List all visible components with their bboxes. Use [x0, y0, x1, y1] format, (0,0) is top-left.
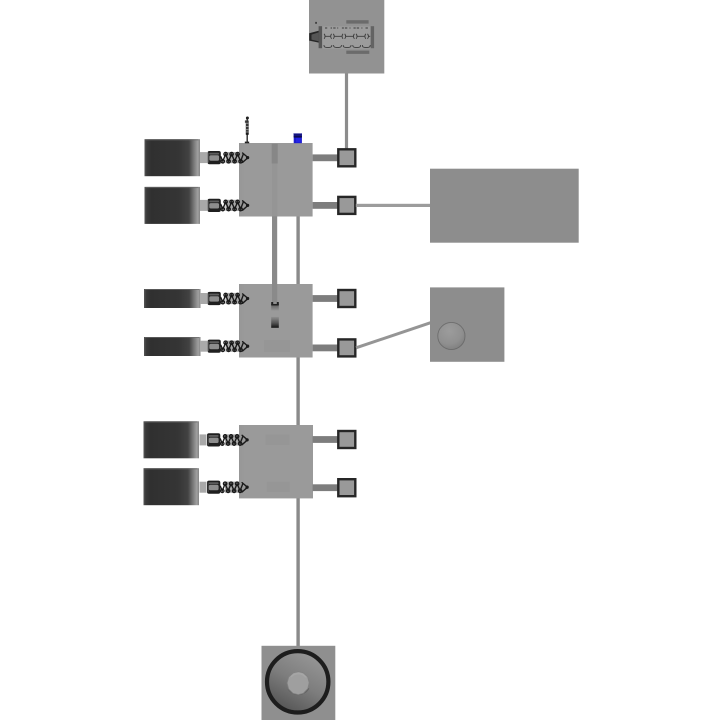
source box M1 top-left (dark) — [145, 139, 201, 176]
wire: M1 port B to right box — [356, 204, 431, 207]
source box M2 bottom-left (dark thin) — [144, 337, 201, 356]
patch cable M1 input B — [200, 199, 249, 212]
speaker dome highlight — [291, 674, 306, 678]
faint panel label M3 top — [266, 434, 290, 445]
keyboard source box — [309, 0, 384, 74]
wire: M2 port B to knob box (diagonal) — [356, 323, 431, 348]
keyboard icon: bottom plate — [346, 51, 369, 54]
slider component inside M2 — [271, 302, 279, 328]
keyboard icon: left bar — [319, 26, 322, 48]
patch cable M3 input B — [200, 481, 249, 494]
wire: M1 internal (top segment, visible) — [272, 144, 278, 164]
port M1 out B (right bottom) — [313, 197, 356, 214]
faint panel label M2 — [264, 340, 290, 352]
faint panel label M3 bottom — [267, 482, 290, 492]
wire: M1 internal (faint segment) — [272, 164, 277, 217]
module box M2 (filter) — [239, 284, 313, 358]
source box M1 bottom-left (dark) — [145, 187, 201, 224]
patch cable M2 input A — [200, 292, 249, 305]
knob sphere — [438, 322, 465, 349]
keyboard icon: top dash row — [325, 27, 368, 29]
wire: M1 to M2 control cable — [272, 216, 277, 284]
source box M3 bottom-left (dark) — [144, 468, 200, 505]
right display box — [430, 169, 579, 243]
patch cable M3 input A — [200, 433, 249, 446]
knob box — [430, 287, 504, 361]
wire: module M1 bottom to speaker (passes behind M2, M3) — [296, 216, 299, 646]
port M2 out B (right bottom) — [313, 339, 356, 356]
patch cable M2 input B — [200, 340, 249, 353]
antenna on M1 — [245, 117, 249, 144]
module box M1 (oscillator) — [239, 143, 313, 217]
wire: keyboard box to M1 input port — [345, 74, 348, 150]
speaker dome — [287, 672, 309, 695]
keyboard icon: key separators middle row — [324, 34, 370, 39]
blue indicator cap on M1 — [294, 133, 302, 143]
keyboard icon: small screw dot — [315, 22, 317, 24]
module box M3 — [239, 425, 313, 498]
keyboard icon: right bar — [371, 26, 374, 48]
port M2 out A (right top) — [313, 290, 356, 307]
speaker ring — [267, 651, 328, 712]
speaker cone — [269, 653, 327, 711]
keyboard icon: keys panel — [323, 26, 371, 48]
keyboard icon: top plate — [346, 20, 368, 23]
patch cable M1 input A — [200, 151, 249, 164]
speaker box — [262, 646, 336, 720]
port M1 out A (right top) — [313, 149, 356, 166]
wire: control cable over M2 to slider — [272, 284, 277, 302]
speaker dome shadow — [288, 688, 308, 694]
keyboard icon: bottom key brackets — [324, 45, 370, 47]
keyboard icon: plug horn — [309, 30, 320, 43]
source box M2 top-left (dark thin) — [144, 289, 201, 308]
source box M3 top-left (dark) — [144, 421, 200, 458]
port M3 out A (right top) — [313, 431, 356, 448]
port M3 out B (right bottom) — [313, 479, 356, 496]
